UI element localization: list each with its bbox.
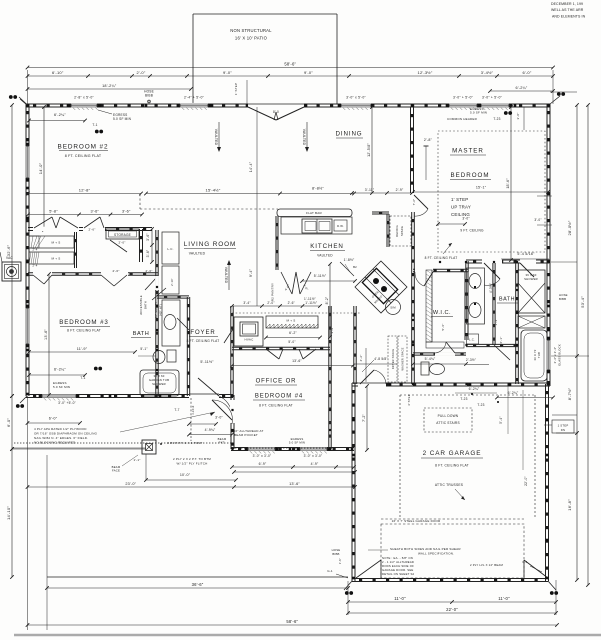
svg-text:6'-0": 6'-0" xyxy=(523,70,532,75)
svg-text:3'-4": 3'-4" xyxy=(243,301,250,305)
svg-text:8'-8½": 8'-8½" xyxy=(312,187,324,191)
svg-text:3'-0" x 3'-0": 3'-0" x 3'-0" xyxy=(304,454,323,458)
svg-text:NAIL W/8d N. 4" EDGES. 6" FIEL: NAIL W/8d N. 4" EDGES. 6" FIELD. xyxy=(34,436,88,440)
linen cabinet xyxy=(467,334,479,344)
svg-text:BIBB: BIBB xyxy=(332,552,339,556)
svg-text:5'-4 5/16": 5'-4 5/16" xyxy=(517,252,535,256)
svg-text:58'-6": 58'-6" xyxy=(286,619,298,624)
svg-text:58'-6": 58'-6" xyxy=(284,62,296,67)
svg-text:3'-6": 3'-6" xyxy=(90,210,99,214)
svg-text:28'-0½": 28'-0½" xyxy=(567,220,572,235)
garage door corner braces xyxy=(356,560,381,578)
hvac closet xyxy=(234,317,263,346)
svg-text:BEDROOM #2: BEDROOM #2 xyxy=(58,144,109,151)
svg-text:2 BYP P.T. 6 X 6 POST: 2 BYP P.T. 6 X 6 POST xyxy=(167,441,202,445)
svg-text:2'-4: 2'-4 xyxy=(32,264,37,268)
svg-text:5.0 SF MIN: 5.0 SF MIN xyxy=(113,117,132,121)
svg-text:4'-9¾": 4'-9¾" xyxy=(205,428,216,432)
svg-text:BEDROOM: BEDROOM xyxy=(451,172,490,179)
svg-text:7'-6": 7'-6" xyxy=(412,199,416,206)
svg-text:OFFICE OR: OFFICE OR xyxy=(256,379,297,385)
svg-text:4'-9": 4'-9" xyxy=(311,462,319,466)
svg-text:1'-6": 1'-6" xyxy=(338,558,342,564)
svg-text:6'-1": 6'-1" xyxy=(499,337,503,344)
bath (bed3) walls xyxy=(155,230,157,396)
svg-text:2'-4" + 5'-0": 2'-4" + 5'-0" xyxy=(184,96,205,100)
svg-text:2'-4: 2'-4 xyxy=(32,248,37,252)
svg-text:2'-9": 2'-9" xyxy=(396,188,404,192)
garage door dashed + label xyxy=(381,518,524,520)
svg-text:16'-8": 16'-8" xyxy=(567,499,572,511)
svg-text:22'-0": 22'-0" xyxy=(446,607,458,612)
porch beam + post xyxy=(12,447,146,449)
bottom dimension lines xyxy=(46,455,48,630)
svg-text:3'-0" +5'-0": 3'-0" +5'-0" xyxy=(58,401,76,405)
sim circle xyxy=(386,300,401,315)
walk-in closet xyxy=(464,272,466,340)
door foyer-office xyxy=(230,400,235,423)
exterior walls xyxy=(26,103,550,105)
svg-text:PKT.: PKT. xyxy=(219,441,226,445)
right dimension lines xyxy=(576,105,578,580)
svg-text:1'-1": 1'-1" xyxy=(134,458,141,462)
svg-text:5'-11½": 5'-11½" xyxy=(200,360,214,364)
svg-text:6'-2¼": 6'-2¼" xyxy=(54,368,66,372)
svg-text:11'-9": 11'-9" xyxy=(77,347,88,351)
svg-text:6'-2¼": 6'-2¼" xyxy=(516,86,528,90)
linen closets by bath xyxy=(162,232,179,264)
svg-text:8 FT. CEILING FLAT: 8 FT. CEILING FLAT xyxy=(65,154,102,158)
svg-text:3'-0": 3'-0" xyxy=(516,113,520,120)
svg-text:NON STRUCTURAL: NON STRUCTURAL xyxy=(230,28,272,33)
windows in top wall xyxy=(71,103,97,108)
svg-text:3'-0" x 3'-0": 3'-0" x 3'-0" xyxy=(253,454,272,458)
svg-text:4'-8 5/8": 4'-8 5/8" xyxy=(374,357,387,361)
svg-text:6'-0": 6'-0" xyxy=(6,418,11,427)
svg-text:AND ELEMENTS IN: AND ELEMENTS IN xyxy=(552,14,586,18)
bedroom3 closet bifold xyxy=(28,272,158,274)
svg-text:SHOWER: SHOWER xyxy=(152,382,166,386)
attic platform dashed xyxy=(399,395,401,519)
door dining to master hall xyxy=(414,195,428,209)
svg-text:DECEMBER 1, 199: DECEMBER 1, 199 xyxy=(551,2,583,6)
svg-text:SIM: SIM xyxy=(390,306,396,310)
front door opening and swing xyxy=(189,393,219,398)
bath interior walls xyxy=(492,263,494,345)
svg-text:3'-0" x 5'-0": 3'-0" x 5'-0" xyxy=(346,96,366,100)
svg-text:9 FT. CEILING: 9 FT. CEILING xyxy=(460,229,484,233)
svg-text:ATTIC TRUSSES: ATTIC TRUSSES xyxy=(435,483,464,487)
svg-text:4' STEP: 4' STEP xyxy=(407,394,411,406)
svg-text:1'-8½": 1'-8½" xyxy=(344,258,355,262)
svg-text:8'-2": 8'-2" xyxy=(325,296,329,304)
svg-text:DN: DN xyxy=(561,428,565,432)
master tub xyxy=(521,330,547,381)
svg-text:2'-8": 2'-8" xyxy=(424,138,433,142)
door master to bath hall xyxy=(482,259,502,264)
svg-text:7'-2": 7'-2" xyxy=(362,414,366,422)
svg-text:8 FT. CEILING FLAT: 8 FT. CEILING FLAT xyxy=(187,339,220,343)
svg-text:13'-6": 13'-6" xyxy=(292,359,302,363)
svg-text:OR 7/16" OSB DIAPHRAGM ON CEIL: OR 7/16" OSB DIAPHRAGM ON CEILING xyxy=(34,432,98,436)
svg-text:T-7: T-7 xyxy=(174,408,179,412)
svg-text:22'-0": 22'-0" xyxy=(524,475,528,485)
master suite south wall xyxy=(466,259,549,261)
office windows in south wall xyxy=(248,446,275,451)
nook shelf M+S xyxy=(266,316,318,328)
laundry dashed boxes xyxy=(388,336,397,382)
svg-text:5.0 SF MIN: 5.0 SF MIN xyxy=(289,441,305,445)
glass block window xyxy=(546,340,551,370)
svg-text:1' STEP: 1' STEP xyxy=(234,83,238,95)
svg-text:WELL AS THE ARR: WELL AS THE ARR xyxy=(551,8,584,12)
svg-text:MASTER: MASTER xyxy=(452,148,484,155)
svg-text:8'-7½": 8'-7½" xyxy=(567,387,572,400)
svg-text:12'-5/8": 12'-5/8" xyxy=(367,143,371,157)
svg-text:3'-6": 3'-6" xyxy=(122,210,131,214)
svg-text:16' X 7' STEEL GARAGE DOOR: 16' X 7' STEEL GARAGE DOOR xyxy=(392,519,441,523)
bed3 toilet xyxy=(167,350,176,362)
svg-text:1 STEP: 1 STEP xyxy=(558,424,569,428)
svg-text:FOYER: FOYER xyxy=(190,330,215,336)
svg-text:2'-8" x 5'-0": 2'-8" x 5'-0" xyxy=(74,96,94,100)
svg-text:L.C.: L.C. xyxy=(469,338,475,342)
pull down attic stairs xyxy=(424,408,472,432)
svg-text:1'-11½": 1'-11½" xyxy=(305,301,317,305)
svg-text:2'-0": 2'-0" xyxy=(137,70,146,75)
svg-text:3'-0": 3'-0" xyxy=(215,416,223,420)
svg-text:T-1: T-1 xyxy=(92,123,97,127)
svg-text:VAC: VAC xyxy=(6,256,13,260)
svg-text:5'-11½": 5'-11½" xyxy=(314,274,327,278)
svg-text:16' X 10' PATIO: 16' X 10' PATIO xyxy=(235,36,268,41)
svg-text:9'-0": 9'-0" xyxy=(223,70,232,75)
svg-text:32'-6": 32'-6" xyxy=(6,244,11,256)
svg-text:M + S: M + S xyxy=(52,241,61,245)
svg-text:SHEATH BOTH SIDES AND NAIL PER: SHEATH BOTH SIDES AND NAIL PER SHEAR xyxy=(390,547,461,551)
svg-text:2'-3½": 2'-3½" xyxy=(466,358,476,362)
svg-text:9'-0": 9'-0" xyxy=(304,70,313,75)
svg-text:WALL SPECIFICATION.: WALL SPECIFICATION. xyxy=(418,552,454,556)
hall linen shelves xyxy=(29,236,74,248)
svg-text:1' STEP: 1' STEP xyxy=(451,197,468,202)
tray ceiling dotted xyxy=(438,131,545,252)
garden tub xyxy=(140,370,179,396)
svg-text:L.C.: L.C. xyxy=(167,247,173,251)
shower xyxy=(518,270,545,313)
svg-text:VAULTED: VAULTED xyxy=(214,129,218,146)
svg-text:FACE: FACE xyxy=(112,469,120,473)
svg-text:14'-0": 14'-0" xyxy=(38,162,43,174)
svg-text:VAULTED: VAULTED xyxy=(224,267,228,284)
svg-text:BEAM POCKET: BEAM POCKET xyxy=(234,433,258,437)
kitchen nook dashed xyxy=(232,312,360,314)
svg-text:2 CAR GARAGE: 2 CAR GARAGE xyxy=(423,450,482,457)
svg-text:UP TRAY: UP TRAY xyxy=(451,205,471,210)
svg-text:5'-0": 5'-0" xyxy=(288,340,295,344)
svg-text:8'-0: 8'-0 xyxy=(273,110,279,114)
svg-text:3'-0": 3'-0" xyxy=(534,218,541,222)
top dimension lines xyxy=(27,70,29,104)
svg-text:DRYER SPACE: DRYER SPACE xyxy=(391,349,395,370)
svg-text:6'-0": 6'-0" xyxy=(49,417,58,421)
windows in left wall xyxy=(25,146,30,178)
svg-text:36'-6": 36'-6" xyxy=(192,582,204,587)
svg-text:T-1: T-1 xyxy=(80,376,85,380)
bedroom3 egress window xyxy=(42,393,76,398)
svg-text:PULL DOWN: PULL DOWN xyxy=(438,414,459,418)
svg-text:REFRIG: REFRIG xyxy=(395,225,399,237)
refrig space dashed xyxy=(390,216,411,246)
svg-text:6'-2": 6'-2" xyxy=(289,331,297,335)
svg-text:M + S: M + S xyxy=(287,319,296,323)
svg-text:8 FT. CEILING FLAT: 8 FT. CEILING FLAT xyxy=(425,256,458,260)
svg-text:BEDROOM #3: BEDROOM #3 xyxy=(59,319,109,326)
svg-text:2'-0": 2'-0" xyxy=(119,241,126,245)
pantry wall/doors xyxy=(275,216,277,270)
svg-text:4'-2": 4'-2" xyxy=(359,355,363,362)
foyer north wall + closets xyxy=(232,346,330,348)
svg-text:BATH: BATH xyxy=(499,297,515,303)
svg-text:DETAIL ON SHEET S2: DETAIL ON SHEET S2 xyxy=(382,572,415,576)
svg-text:8 FT. CEILING FLAT: 8 FT. CEILING FLAT xyxy=(435,464,469,468)
svg-text:GLASS BLOCK: GLASS BLOCK xyxy=(558,344,562,366)
svg-text:SPACE: SPACE xyxy=(400,226,404,236)
powder room wall xyxy=(413,352,466,354)
svg-text:B2: B2 xyxy=(353,265,357,269)
svg-text:2'-6": 2'-6" xyxy=(288,301,295,305)
svg-text:2-2X10: 2-2X10 xyxy=(192,405,195,414)
svg-text:5'-1": 5'-1" xyxy=(140,347,147,351)
svg-text:KITCHEN: KITCHEN xyxy=(310,243,343,250)
powder toilet xyxy=(421,362,429,375)
svg-text:6'-10": 6'-10" xyxy=(52,70,64,75)
svg-text:R2 PANTRY: R2 PANTRY xyxy=(271,283,275,301)
svg-text:18'-6": 18'-6" xyxy=(506,178,510,189)
svg-text:2 PLY LVL X 14" BEAM: 2 PLY LVL X 14" BEAM xyxy=(470,563,503,567)
svg-text:5'-4¾": 5'-4¾" xyxy=(425,357,436,361)
svg-text:2 PLY 2 X 2 P.T. TO BTM: 2 PLY 2 X 2 P.T. TO BTM xyxy=(173,457,211,461)
svg-text:4 PLY APA RATED 1/2" PLYWOOD: 4 PLY APA RATED 1/2" PLYWOOD xyxy=(34,427,87,431)
svg-text:COMMON HEADER: COMMON HEADER xyxy=(447,117,478,121)
svg-text:15'-1": 15'-1" xyxy=(476,186,487,190)
svg-text:STORAGE: STORAGE xyxy=(114,233,131,237)
storage closet xyxy=(106,229,139,239)
svg-text:TUB: TUB xyxy=(537,352,541,358)
svg-text:BATH: BATH xyxy=(144,301,148,309)
svg-text:NO BLOCKING REQUIRED: NO BLOCKING REQUIRED xyxy=(34,441,76,445)
svg-text:BATH: BATH xyxy=(133,331,150,337)
svg-text:3'-0": 3'-0" xyxy=(462,217,469,221)
svg-text:15'-4½": 15'-4½" xyxy=(206,188,221,193)
svg-text:5.0 SF MIN: 5.0 SF MIN xyxy=(53,385,70,389)
svg-text:G-1: G-1 xyxy=(522,560,528,564)
svg-text:11'-0": 11'-0" xyxy=(498,596,510,601)
svg-text:G-1: G-1 xyxy=(327,569,333,573)
svg-text:3'-0" + 5'-0": 3'-0" + 5'-0" xyxy=(482,96,503,100)
bedroom2 closet wall and bifold doors xyxy=(28,214,142,216)
svg-text:8 FT. CEILING FLAT: 8 FT. CEILING FLAT xyxy=(259,404,293,408)
svg-text:2'-6": 2'-6" xyxy=(146,269,153,273)
door hall to garage xyxy=(358,382,386,387)
svg-text:LIVING ROOM: LIVING ROOM xyxy=(184,241,237,248)
svg-text:HVAC: HVAC xyxy=(245,338,255,342)
svg-text:5'-4": 5'-4" xyxy=(499,416,503,423)
svg-text:6'-2¼": 6'-2¼" xyxy=(54,113,66,117)
svg-text:2'-6": 2'-6" xyxy=(113,269,120,273)
svg-text:W/ 1/2" PLY FLITCH: W/ 1/2" PLY FLITCH xyxy=(177,462,208,466)
bed3 vanity sink xyxy=(162,300,180,346)
patio outline xyxy=(193,13,337,15)
svg-text:3'-6": 3'-6" xyxy=(146,233,150,241)
svg-text:5'-6": 5'-6" xyxy=(441,324,445,331)
svg-text:VAULTED: VAULTED xyxy=(302,129,306,146)
svg-text:WASHER SPACE: WASHER SPACE xyxy=(401,347,405,370)
svg-text:11'-0": 11'-0" xyxy=(394,596,406,601)
svg-text:60" VANITY: 60" VANITY xyxy=(154,302,158,319)
patio french doors xyxy=(248,103,304,108)
svg-text:W.I.C.: W.I.C. xyxy=(433,310,451,316)
svg-text:3'-0" + 5'-0": 3'-0" + 5'-0" xyxy=(453,96,474,100)
step note right xyxy=(552,420,574,433)
svg-text:12'-3½": 12'-3½" xyxy=(418,70,433,75)
svg-text:BIBB: BIBB xyxy=(145,94,153,98)
svg-text:6'-9": 6'-9" xyxy=(259,462,267,466)
svg-text:3'-11": 3'-11" xyxy=(365,188,375,192)
door bath xyxy=(152,288,166,300)
svg-text:2'-10": 2'-10" xyxy=(170,278,174,286)
svg-text:12'-8": 12'-8" xyxy=(79,188,91,193)
corner range xyxy=(355,261,407,313)
svg-text:14'-4": 14'-4" xyxy=(249,161,253,172)
svg-text:VAULTED: VAULTED xyxy=(189,252,206,256)
svg-text:T-23: T-23 xyxy=(460,397,467,401)
flat bar counter xyxy=(277,209,352,217)
svg-text:18'-2¼": 18'-2¼" xyxy=(102,84,117,88)
svg-text:6'-2¼": 6'-2¼" xyxy=(508,391,519,395)
svg-text:BIBB: BIBB xyxy=(559,297,566,301)
svg-text:53'-4": 53'-4" xyxy=(580,296,585,308)
svg-text:9'-4": 9'-4" xyxy=(249,268,253,277)
svg-text:DINING: DINING xyxy=(335,131,362,138)
svg-text:3'-4½": 3'-4½" xyxy=(481,70,494,75)
svg-text:23'-0": 23'-0" xyxy=(125,482,136,486)
svg-text:BEDROOM #4: BEDROOM #4 xyxy=(255,394,303,400)
left dimension lines xyxy=(11,105,13,396)
svg-text:2'-0": 2'-0" xyxy=(267,301,274,305)
svg-text:13'-6": 13'-6" xyxy=(44,329,48,340)
svg-text:SHOWER: SHOWER xyxy=(524,277,538,281)
svg-text:2'-6": 2'-6" xyxy=(89,228,96,232)
svg-text:D.W.: D.W. xyxy=(337,224,344,228)
svg-text:3'-6": 3'-6" xyxy=(146,249,150,257)
svg-text:10'-0": 10'-0" xyxy=(180,473,191,477)
washer box xyxy=(518,316,545,328)
master bath vanity xyxy=(467,268,485,324)
svg-text:8 FT. CEILING FLAT: 8 FT. CEILING FLAT xyxy=(67,329,101,333)
svg-text:5'-8": 5'-8" xyxy=(49,210,58,214)
svg-text:T-23: T-23 xyxy=(493,117,500,121)
svg-text:ACCESSIBLE: ACCESSIBLE xyxy=(139,295,143,315)
svg-text:ATTIC STAIRS: ATTIC STAIRS xyxy=(436,421,460,425)
nook double doors xyxy=(265,346,284,350)
svg-text:M + S: M + S xyxy=(52,257,61,261)
svg-text:5.0 SF MIN: 5.0 SF MIN xyxy=(470,111,487,115)
svg-text:14'-10": 14'-10" xyxy=(6,506,11,520)
svg-text:6'-2¼": 6'-2¼" xyxy=(469,387,480,391)
kitchen counter + sink + dw xyxy=(281,217,352,234)
svg-text:FLAT BAR: FLAT BAR xyxy=(306,211,322,215)
svg-text:T-23: T-23 xyxy=(477,403,484,407)
svg-text:3'-4" x 3'-4": 3'-4" x 3'-4" xyxy=(553,347,557,364)
svg-text:VAULTED: VAULTED xyxy=(317,254,333,258)
svg-text:13'-6": 13'-6" xyxy=(289,482,300,486)
